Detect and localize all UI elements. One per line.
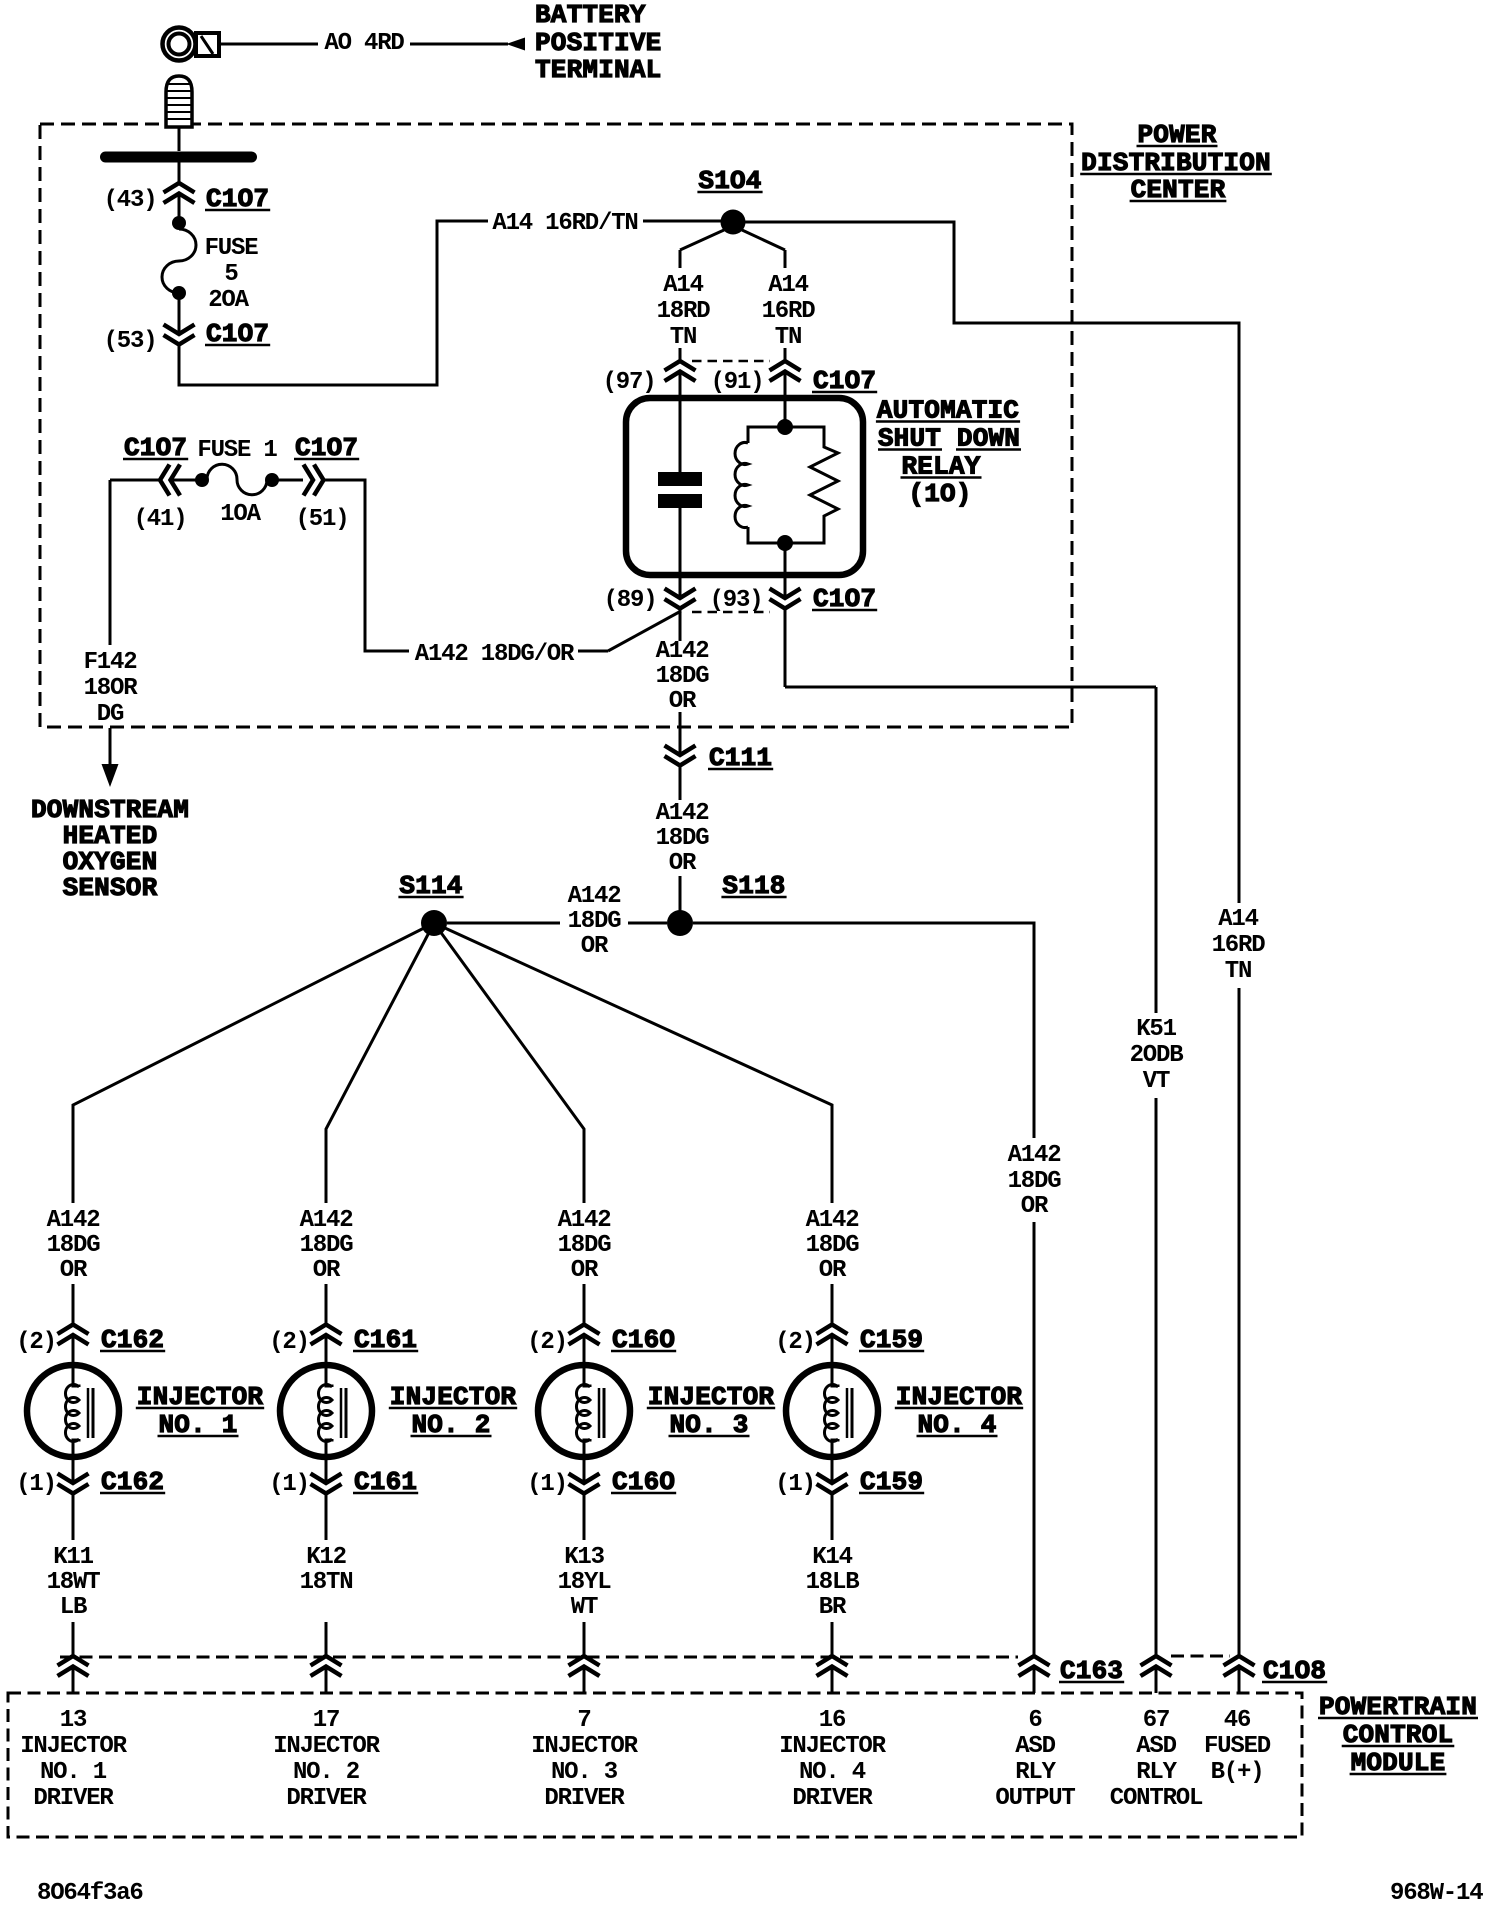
svg-text:18OR: 18OR — [84, 675, 139, 702]
svg-text:968W-14: 968W-14 — [1390, 1880, 1483, 1906]
svg-text:DRIVER: DRIVER — [33, 1785, 114, 1812]
node relay coil bottom — [777, 535, 793, 551]
wire S114 to injector no. 3 — [434, 923, 584, 1203]
svg-text:A142: A142 — [300, 1207, 353, 1234]
svg-text:(2): (2) — [775, 1329, 815, 1356]
label K11 18WT LB — [47, 1544, 101, 1621]
svg-text:A142: A142 — [806, 1207, 859, 1234]
svg-text:A142: A142 — [1008, 1142, 1061, 1169]
pin 6 ASD RLY OUTPUT — [995, 1707, 1075, 1812]
svg-text:OR: OR — [669, 850, 697, 877]
svg-text:8O64f3a6: 8O64f3a6 — [37, 1880, 143, 1906]
pin 17 INJECTOR NO. 2 DRIVER — [273, 1707, 380, 1812]
arrow to downstream heated oxygen sensor — [102, 728, 119, 787]
connector C108 pin 67 — [1141, 1656, 1172, 1693]
svg-text:18LB: 18LB — [806, 1569, 860, 1596]
injector no. 1 — [27, 1365, 119, 1483]
label A14 18RD TN — [657, 272, 711, 351]
wire to connector C162 pin 2 — [72, 1284, 75, 1325]
label A142 18DG OR (below C111) — [656, 800, 710, 877]
connector C107 cavity 91 — [711, 361, 878, 396]
wire coil to C107 (93) — [784, 543, 787, 598]
svg-text:K51: K51 — [1136, 1016, 1176, 1043]
wire into injector no. 2 — [325, 1335, 328, 1368]
relay coil — [735, 427, 785, 543]
svg-text:A14: A14 — [663, 272, 703, 299]
svg-text:B(+): B(+) — [1211, 1759, 1264, 1786]
svg-text:WT: WT — [571, 1594, 598, 1621]
svg-text:NO. 3: NO. 3 — [551, 1759, 618, 1786]
label K13 18YL WT — [558, 1544, 612, 1621]
svg-text:OR: OR — [669, 688, 697, 715]
connector C160 cavity 1 — [527, 1467, 676, 1498]
label INJECTOR NO. 3 — [647, 1382, 775, 1440]
svg-text:(2): (2) — [269, 1329, 309, 1356]
connector PCM pin column x=73 — [58, 1656, 89, 1693]
svg-text:LB: LB — [60, 1594, 87, 1621]
wire S104 left branch A14 18RD/TN — [680, 230, 724, 361]
wire to fuse 1 — [110, 479, 159, 482]
label DOWNSTREAM HEATED OXYGEN SENSOR — [31, 795, 189, 903]
svg-text:A142: A142 — [656, 800, 709, 827]
injector no. 2 — [280, 1365, 372, 1483]
fusible link — [166, 76, 192, 127]
svg-text:(2): (2) — [527, 1329, 567, 1356]
label AUTOMATIC SHUT DOWN RELAY (10) — [876, 396, 1021, 510]
injector no. 4 — [786, 1365, 878, 1483]
wire relay contact branch — [679, 373, 682, 472]
wire C111 to S118 — [679, 766, 682, 912]
label A14 16RD TN (fused B+ run) — [1212, 906, 1266, 985]
label A142 18DG OR (injector no. 3 feed) — [558, 1207, 612, 1284]
wire injector no. 4 to PCM — [831, 1494, 834, 1657]
svg-text:OR: OR — [581, 933, 609, 960]
connector PCM pin column x=326 — [311, 1656, 342, 1693]
svg-text:(1): (1) — [775, 1471, 815, 1498]
connector line C108 — [1171, 1655, 1230, 1658]
svg-text:(89): (89) — [604, 587, 657, 614]
label INJECTOR NO. 4 — [895, 1382, 1023, 1440]
connector line PCM — [60, 1656, 1018, 1659]
svg-text:F142: F142 — [84, 649, 137, 676]
svg-text:K11: K11 — [53, 1544, 93, 1571]
wire injector no. 1 to PCM — [72, 1494, 75, 1657]
wire S114 to injector no. 1 — [73, 923, 434, 1203]
wire C107 (89) to C111 — [679, 610, 682, 755]
wire bus bar to C107 (43) — [178, 162, 181, 183]
svg-text:(1): (1) — [527, 1471, 567, 1498]
svg-text:FUSED: FUSED — [1204, 1733, 1271, 1760]
connector C162 cavity 1 — [16, 1467, 165, 1498]
svg-text:5: 5 — [224, 261, 238, 288]
svg-text:(1O): (1O) — [908, 479, 971, 509]
wire fuse 5 to C107 (53) — [178, 299, 181, 334]
svg-text:18RD: 18RD — [657, 298, 711, 325]
wire into injector no. 4 — [831, 1335, 834, 1368]
svg-text:INJECTOR: INJECTOR — [20, 1733, 127, 1760]
svg-text:1OA: 1OA — [220, 501, 261, 528]
svg-text:(41): (41) — [134, 506, 187, 533]
svg-text:A142: A142 — [568, 883, 621, 910]
connector C108 pin 46 — [1224, 1656, 1328, 1693]
wire K51 ASD relay control — [785, 609, 1156, 1656]
svg-text:A142 18DG/OR: A142 18DG/OR — [415, 641, 575, 668]
connector C161 cavity 2 — [269, 1325, 418, 1357]
wire coil branch — [784, 373, 787, 427]
svg-text:K13: K13 — [564, 1544, 604, 1571]
svg-text:DRIVER: DRIVER — [792, 1785, 873, 1812]
powertrain control module box — [8, 1693, 1302, 1837]
wire S118 to PCM ASD relay output — [693, 923, 1034, 1656]
injector no. 3 — [538, 1365, 630, 1483]
fuse 1 10A — [195, 437, 279, 528]
connector C107 cavity 53 — [104, 319, 271, 355]
svg-text:13: 13 — [60, 1707, 87, 1734]
label K14 18LB BR — [806, 1544, 860, 1621]
pin 7 INJECTOR NO. 3 DRIVER — [531, 1707, 638, 1812]
connector C159 cavity 1 — [775, 1467, 924, 1498]
label POWERTRAIN CONTROL MODULE — [1318, 1692, 1478, 1778]
label POWER DISTRIBUTION CENTER — [1080, 120, 1272, 205]
svg-text:DRIVER: DRIVER — [544, 1785, 625, 1812]
svg-text:OR: OR — [313, 1257, 341, 1284]
wire S104 right branch A14 16RD/TN — [742, 230, 785, 361]
svg-text:18DG: 18DG — [568, 908, 622, 935]
svg-text:K14: K14 — [812, 1544, 852, 1571]
node S118 — [667, 871, 787, 936]
label INJECTOR NO. 1 — [136, 1382, 264, 1440]
node S104 — [697, 166, 762, 235]
label A14 16RD TN (relay branch) — [762, 272, 816, 351]
pin 46 FUSED B(+) — [1204, 1707, 1271, 1786]
svg-text:NO. 4: NO. 4 — [799, 1759, 866, 1786]
svg-text:INJECTOR: INJECTOR — [531, 1733, 638, 1760]
wire injector no. 2 to PCM — [325, 1494, 328, 1657]
svg-text:A14: A14 — [768, 272, 808, 299]
relay contact — [658, 472, 702, 508]
label BATTERY POSITIVE TERMINAL — [535, 0, 661, 85]
wire fuse 1 to A142 splice — [324, 480, 409, 651]
wire F142 to oxygen sensor — [109, 480, 112, 645]
connector C107 cavity 89 — [604, 587, 696, 614]
svg-text:18DG: 18DG — [300, 1232, 354, 1259]
arrow to battery positive terminal — [506, 38, 525, 51]
svg-text:RLY: RLY — [1015, 1759, 1056, 1786]
wire into injector no. 1 — [72, 1335, 75, 1368]
connector C111 — [665, 743, 774, 773]
svg-text:ASD: ASD — [1015, 1733, 1055, 1760]
fuse 5 20A — [162, 216, 258, 314]
wire to connector C161 pin 2 — [325, 1284, 328, 1325]
svg-text:INJECTOR: INJECTOR — [779, 1733, 886, 1760]
svg-text:A14 16RD/TN: A14 16RD/TN — [492, 210, 637, 237]
connector C107 cavity 51 — [294, 433, 359, 533]
svg-text:A14: A14 — [1218, 906, 1258, 933]
svg-text:TERMINAL: TERMINAL — [535, 55, 661, 85]
connector line C107 upper — [692, 360, 770, 363]
svg-text:67: 67 — [1143, 1707, 1169, 1734]
connector C107 cavity 97 — [603, 361, 696, 396]
svg-text:TN: TN — [775, 324, 801, 351]
svg-text:BATTERY: BATTERY — [535, 0, 646, 30]
svg-text:16: 16 — [819, 1707, 846, 1734]
wire diagonal to C107 (89) — [608, 611, 681, 651]
svg-text:(97): (97) — [603, 369, 656, 396]
svg-text:18DG: 18DG — [558, 1232, 612, 1259]
svg-text:18WT: 18WT — [47, 1569, 101, 1596]
svg-text:18DG: 18DG — [806, 1232, 860, 1259]
wire into injector no. 3 — [583, 1335, 586, 1368]
svg-text:FUSE 1: FUSE 1 — [197, 437, 277, 464]
connector C163 — [1019, 1656, 1125, 1693]
connector C107 cavity 93 — [710, 584, 878, 614]
label F142 18OR DG — [84, 649, 139, 728]
wire to connector C160 pin 2 — [583, 1284, 586, 1325]
svg-text:TN: TN — [670, 324, 696, 351]
relay coil resistor — [785, 427, 838, 543]
svg-text:SENSOR: SENSOR — [63, 873, 158, 903]
pin 67 ASD RLY CONTROL — [1110, 1707, 1203, 1812]
label A142 18DG OR (ASD output run) — [1008, 1142, 1062, 1220]
svg-text:OUTPUT: OUTPUT — [995, 1785, 1075, 1812]
pin 13 INJECTOR NO. 1 DRIVER — [20, 1707, 127, 1812]
svg-text:OR: OR — [60, 1257, 88, 1284]
svg-text:(43): (43) — [104, 187, 157, 214]
svg-text:NO. 1: NO. 1 — [40, 1759, 107, 1786]
node S114 — [398, 871, 463, 936]
svg-text:A142: A142 — [656, 638, 709, 665]
connector C162 cavity 2 — [16, 1325, 165, 1357]
svg-text:OR: OR — [819, 1257, 847, 1284]
wire injector no. 3 to PCM — [583, 1494, 586, 1657]
svg-text:2ODB: 2ODB — [1130, 1042, 1184, 1069]
svg-text:2OA: 2OA — [208, 287, 249, 314]
svg-text:INJECTOR: INJECTOR — [273, 1733, 380, 1760]
svg-text:CONTROL: CONTROL — [1110, 1785, 1203, 1812]
label K51 20DB VT — [1130, 1016, 1184, 1095]
svg-text:(53): (53) — [104, 328, 157, 355]
svg-text:(1): (1) — [16, 1471, 56, 1498]
label INJECTOR NO. 2 — [389, 1382, 517, 1440]
wire to connector C159 pin 2 — [831, 1284, 834, 1325]
svg-text:16RD: 16RD — [762, 298, 816, 325]
connector PCM pin column x=584 — [569, 1656, 600, 1693]
label A142 18DG OR (between splices) — [568, 883, 622, 960]
wire S114 to injector no. 2 — [326, 923, 434, 1203]
connector C161 cavity 1 — [269, 1467, 418, 1498]
connector PCM pin column x=832 — [817, 1656, 848, 1693]
svg-text:18YL: 18YL — [558, 1569, 612, 1596]
wire to fuse 5 — [178, 194, 181, 218]
wire S114 to injector no. 4 — [434, 923, 832, 1203]
svg-text:7: 7 — [577, 1707, 590, 1734]
svg-text:ASD: ASD — [1136, 1733, 1176, 1760]
svg-text:POSITIVE: POSITIVE — [535, 28, 661, 58]
svg-text:K12: K12 — [306, 1544, 346, 1571]
wire AO 4RD to battery positive terminal — [221, 43, 318, 46]
connector C107 cavity 41 — [123, 433, 188, 533]
svg-text:OR: OR — [571, 1257, 599, 1284]
svg-text:(93): (93) — [710, 587, 763, 614]
power distribution center box — [40, 124, 1072, 727]
wire fusible link to bus bar — [178, 127, 181, 151]
label K12 18TN — [300, 1544, 353, 1596]
label A142 18DG OR (above C111) — [656, 638, 710, 715]
svg-text:17: 17 — [313, 1707, 339, 1734]
wire contact to C107 (89) — [679, 508, 682, 598]
label A142 18DG OR (injector no. 2 feed) — [300, 1207, 354, 1284]
svg-text:VT: VT — [1143, 1068, 1170, 1095]
svg-text:OR: OR — [1021, 1193, 1049, 1220]
connector C160 cavity 2 — [527, 1325, 676, 1357]
wire C107 (53) to A14 16RD/TN — [179, 221, 488, 385]
connector C159 cavity 2 — [775, 1325, 924, 1357]
svg-text:6: 6 — [1028, 1707, 1042, 1734]
wire S114 to S118 — [447, 922, 667, 925]
svg-text:TN: TN — [1225, 958, 1251, 985]
svg-text:A142: A142 — [558, 1207, 611, 1234]
svg-text:DG: DG — [97, 701, 124, 728]
relay: automatic shut down relay (10) — [626, 398, 863, 575]
battery ring terminal — [163, 28, 220, 61]
svg-text:18DG: 18DG — [656, 825, 710, 852]
svg-text:18DG: 18DG — [47, 1232, 101, 1259]
svg-text:46: 46 — [1224, 1707, 1251, 1734]
connector C107 cavity 43 — [104, 183, 271, 214]
bus bar — [100, 152, 257, 163]
svg-text:DRIVER: DRIVER — [286, 1785, 367, 1812]
svg-text:16RD: 16RD — [1212, 932, 1266, 959]
svg-text:(1): (1) — [269, 1471, 309, 1498]
node relay coil top — [777, 419, 793, 435]
svg-text:(51): (51) — [296, 506, 349, 533]
svg-text:(91): (91) — [711, 369, 764, 396]
svg-text:(2): (2) — [16, 1329, 56, 1356]
svg-text:RLY: RLY — [1136, 1759, 1177, 1786]
pin 16 INJECTOR NO. 4 DRIVER — [779, 1707, 886, 1812]
svg-text:18TN: 18TN — [300, 1569, 353, 1596]
svg-text:FUSE: FUSE — [205, 235, 259, 262]
svg-text:A142: A142 — [47, 1207, 100, 1234]
wire S104 to PCM fused B(+) — [745, 222, 1239, 903]
svg-text:18DG: 18DG — [1008, 1168, 1062, 1195]
svg-text:NO. 2: NO. 2 — [293, 1759, 359, 1786]
svg-text:18DG: 18DG — [656, 663, 710, 690]
label A142 18DG OR (injector no. 1 feed) — [47, 1207, 101, 1284]
connector line C107 lower — [692, 611, 770, 614]
label A142 18DG OR (injector no. 4 feed) — [806, 1207, 860, 1284]
svg-text:AO 4RD: AO 4RD — [324, 30, 404, 57]
svg-text:BR: BR — [819, 1594, 847, 1621]
